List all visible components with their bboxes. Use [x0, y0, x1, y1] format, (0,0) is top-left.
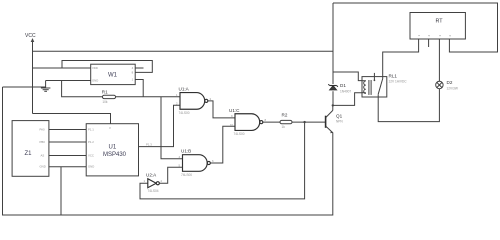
wire U1 right pin to U1:A input 2: [139, 105, 181, 146]
svg-text:V: V: [109, 126, 111, 130]
node VCC power symbol: [25, 33, 36, 114]
svg-text:VCC: VCC: [88, 154, 94, 158]
chip U1 MSP430: [86, 124, 138, 176]
svg-text:VCC: VCC: [25, 33, 36, 39]
svg-text:74LS00: 74LS00: [234, 132, 245, 136]
svg-text:AS: AS: [41, 154, 45, 158]
nand gate U1:C: [229, 108, 267, 136]
svg-text:GND: GND: [40, 165, 46, 169]
transistor Q1: [326, 110, 344, 133]
wire W1 pin 4 stub (dangling): [135, 67, 143, 69]
svg-text:U2:A: U2:A: [146, 173, 157, 178]
svg-text:D2: D2: [447, 80, 453, 85]
svg-text:74LS04: 74LS04: [148, 189, 159, 193]
thermostat RT: [410, 13, 465, 40]
svg-text:12V 1A/VDC: 12V 1A/VDC: [389, 79, 408, 83]
wire relay throw up to RT pin 1: [383, 39, 419, 79]
svg-text:VDD: VDD: [92, 66, 98, 70]
wire U1:C output to R2: [263, 121, 280, 123]
resistor R2: [280, 120, 292, 123]
wire ground to left border: [3, 86, 46, 88]
wire U1:B output to U1:C input 2: [210, 126, 235, 163]
wire RT pin 2 stub: [428, 39, 430, 47]
svg-text:U1:A: U1:A: [179, 87, 190, 92]
svg-text:P1.3: P1.3: [146, 143, 152, 147]
wire GND line down to R1: [62, 81, 103, 97]
nand gate U1:A: [176, 87, 212, 115]
wire R2 to Q1 base: [292, 121, 325, 123]
chip W1: [91, 64, 136, 84]
wire W1 pin 1 down to R1 rail: [135, 80, 143, 97]
wire W1 top loop (middle right pin to GND line): [62, 61, 152, 73]
wire U2:A output up to U1:B input 2: [159, 167, 182, 183]
svg-text:RL1: RL1: [389, 73, 398, 78]
wire D1 branch vertical (VCC loop left edge): [332, 3, 334, 105]
svg-text:W1: W1: [108, 72, 118, 78]
node base junction: [303, 121, 305, 123]
svg-text:NPN: NPN: [336, 120, 343, 124]
relay RL1: [362, 73, 407, 97]
svg-text:10: 10: [230, 123, 234, 127]
wire VCC down to U1 top pin: [33, 114, 111, 125]
svg-text:RT: RT: [436, 19, 444, 25]
node collector junction: [332, 104, 334, 106]
wire relay pole down to lamp return: [378, 89, 439, 122]
wire Z1 to U1 line 3: [49, 155, 86, 157]
wire VCC rail to right block: [33, 50, 334, 52]
chip Z1: [12, 121, 49, 177]
svg-text:PA0: PA0: [40, 128, 46, 132]
svg-text:1k: 1k: [282, 125, 286, 129]
svg-text:Z1: Z1: [25, 151, 33, 157]
wire base node down and left to U2:A input: [140, 122, 305, 199]
svg-text:12V/3W: 12V/3W: [447, 86, 458, 90]
wire left border and bottom rail to Q1 emitter: [3, 87, 333, 215]
wire R1 to U1:A input 1: [116, 96, 180, 98]
wire rail down to U1:B input 1: [161, 97, 183, 159]
svg-text:74LS00: 74LS00: [179, 111, 190, 115]
svg-text:MSP430: MSP430: [103, 152, 127, 158]
svg-text:10k: 10k: [102, 100, 108, 104]
svg-text:PB0: PB0: [40, 140, 46, 144]
inverter U2:A: [144, 173, 163, 193]
svg-text:P1.2: P1.2: [88, 140, 94, 144]
lamp D2: [436, 80, 458, 90]
svg-text:U1:B: U1:B: [181, 149, 191, 154]
wire Z1 to U1 line 1: [49, 129, 86, 131]
wire Z1 to U1 line 2: [49, 141, 86, 143]
wire RT pin 3 down to lamp: [438, 39, 440, 81]
svg-text:Q1: Q1: [336, 114, 343, 119]
wire RT pin 4 to right loop top: [333, 3, 498, 52]
svg-text:GND: GND: [88, 165, 94, 169]
svg-text:R2: R2: [282, 112, 288, 117]
diode D1 zener: [328, 83, 351, 93]
wire U1:A output to U1:C input 1: [208, 101, 235, 118]
wire Q1 collector up to node: [332, 105, 334, 110]
svg-text:GND: GND: [92, 79, 98, 83]
nand gate U1:B: [179, 149, 215, 177]
wire GND line down to bottom rail: [60, 167, 62, 215]
wire VCC to W1 VDD: [33, 67, 91, 69]
svg-text:1N4007: 1N4007: [340, 90, 351, 94]
wire coil top tap to relay: [333, 72, 362, 81]
svg-text:D1: D1: [340, 83, 346, 88]
ground: [41, 81, 51, 92]
wire collector node to relay coil bottom: [333, 93, 362, 106]
svg-text:U1: U1: [109, 144, 117, 150]
wire Z1 to U1 GND line: [49, 166, 86, 168]
wire W1 GND line to ground: [46, 80, 91, 82]
svg-text:74LS00: 74LS00: [181, 173, 192, 177]
svg-text:U1:C: U1:C: [229, 108, 240, 113]
resistor R1: [102, 95, 115, 98]
svg-text:R1: R1: [102, 89, 108, 94]
svg-text:P1.1: P1.1: [88, 128, 94, 132]
